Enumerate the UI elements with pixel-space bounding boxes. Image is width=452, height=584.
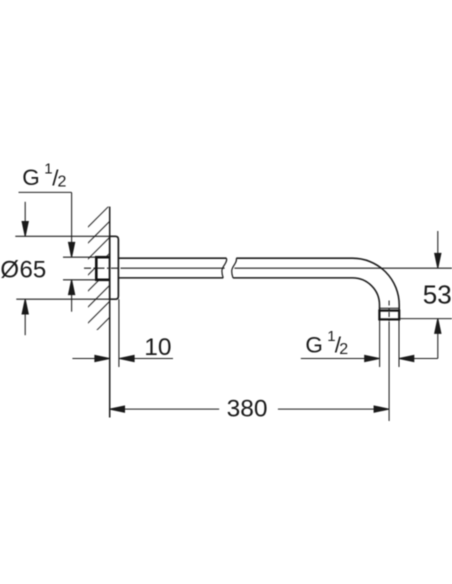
svg-text:53: 53 bbox=[423, 279, 452, 309]
svg-text:2: 2 bbox=[58, 174, 67, 191]
svg-text:380: 380 bbox=[227, 396, 268, 423]
svg-text:65: 65 bbox=[20, 257, 47, 284]
svg-text:G: G bbox=[22, 165, 40, 190]
svg-text:10: 10 bbox=[144, 334, 171, 361]
svg-text:Ø: Ø bbox=[0, 257, 19, 284]
svg-text:G: G bbox=[305, 332, 323, 357]
svg-text:2: 2 bbox=[339, 341, 348, 358]
